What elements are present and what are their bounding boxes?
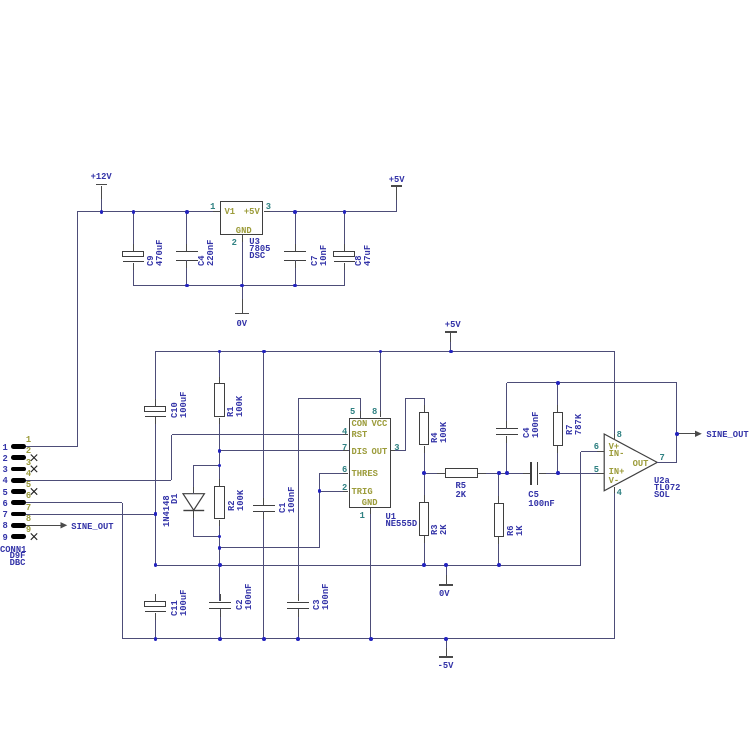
CONN1 pin 2 number (olive) xyxy=(26,448,31,454)
555 pin number 5 xyxy=(350,409,355,415)
regulator GND pin wire xyxy=(242,235,243,242)
X pin 5 xyxy=(31,488,37,494)
junction mid-rail/C2 branch xyxy=(218,563,222,567)
junction R2/TRIG link xyxy=(218,546,222,550)
power -5V bar xyxy=(439,656,453,658)
regulator pin number 1 xyxy=(155,204,215,210)
opamp label V- xyxy=(609,478,620,484)
label R5 2K xyxy=(456,482,467,501)
wire feedback right vertical xyxy=(676,383,677,463)
wire psu bottom rail xyxy=(134,285,345,286)
resistor R4 top wire xyxy=(424,398,425,412)
wire node to R5 xyxy=(424,473,445,474)
label CONN1 xyxy=(0,547,26,553)
resistor R3 xyxy=(419,502,430,536)
regulator label +5V xyxy=(244,209,260,215)
wire opamp V- to bottom rail xyxy=(614,487,615,640)
label C10 100uF xyxy=(171,392,188,418)
regulator V1 box xyxy=(220,201,264,235)
connector CONN1 pin 7 pad xyxy=(11,512,27,517)
capacitor C8 bottom wire xyxy=(344,263,345,286)
capacitor C9 bottom wire xyxy=(133,263,134,286)
555 pin number 3 xyxy=(394,445,399,451)
wire CONN pin7 horizontal xyxy=(26,514,155,515)
power -5V stem xyxy=(446,639,447,648)
label C4 100nF (main) xyxy=(523,412,540,438)
label C8 47uF xyxy=(355,245,372,266)
wire CONN pin6 horizontal xyxy=(26,502,122,503)
pin stub TRIG xyxy=(343,491,349,492)
wire mid rail 0V xyxy=(156,565,581,566)
opamp label IN- xyxy=(609,451,625,457)
555 pin number 8 xyxy=(372,409,377,415)
resistor R5 xyxy=(445,468,478,478)
label U2a TL072 SOL xyxy=(654,478,680,499)
connector CONN1 pin 2 pad xyxy=(11,455,27,460)
regulator label V1 xyxy=(225,209,236,215)
capacitor C4 220nF (psu) xyxy=(176,251,198,253)
junction R1/DIS wire xyxy=(218,449,222,453)
regulator label GND xyxy=(236,228,252,234)
label C11 100uF xyxy=(171,590,188,616)
label R4 100K xyxy=(431,421,448,442)
ground 0V (psu) bar xyxy=(235,313,249,315)
capacitor C10 bottom wire xyxy=(155,417,156,565)
CONN1 pin 4 number (olive) xyxy=(26,471,31,477)
label D1 1N4148 xyxy=(163,496,172,528)
junction pin7/C10 branch xyxy=(154,512,158,516)
wire OUT pin horizontal xyxy=(391,450,406,451)
pin stub RST xyxy=(343,434,349,435)
capacitor C4 (psu) top wire xyxy=(186,212,187,251)
junction R4/R3/R5 node xyxy=(422,471,426,475)
junction output/SINE_OUT tap xyxy=(675,432,679,436)
junction mid-rail/R6 xyxy=(497,563,501,567)
junction top-rail/+5V stem xyxy=(449,350,453,354)
resistor R1 bottom wire xyxy=(219,418,220,451)
junction +12V stem/rail xyxy=(100,210,104,214)
ground 0V (main) label xyxy=(439,591,450,597)
junction mid-rail/R3 xyxy=(422,563,426,567)
capacitor C10 (polarized) xyxy=(144,406,166,412)
capacitor C7 bottom wire xyxy=(295,260,296,285)
wire R5 to R6 node xyxy=(478,473,499,474)
junction psu-bottom/C7 xyxy=(293,284,297,288)
label R3 2K xyxy=(431,524,448,535)
junction R6 node xyxy=(497,471,501,475)
connector CONN1 pin 5 pad xyxy=(11,489,27,494)
junction top-rail/R1 xyxy=(218,350,222,354)
555 label VCC xyxy=(372,421,388,427)
resistor R4 bottom wire xyxy=(424,446,425,474)
wire CONN pin1 horizontal xyxy=(26,446,77,447)
CONN1 pin 4 number (left) xyxy=(0,478,8,484)
diode D1 cathode bar xyxy=(183,510,204,511)
resistor R2 xyxy=(214,486,225,519)
junction psu-bottom/GND-stem xyxy=(240,284,244,288)
wire TRIG horizontal xyxy=(320,491,343,492)
junction bottom-rail/-5V stem xyxy=(444,637,448,641)
capacitor C7 top wire xyxy=(295,212,296,251)
wire CONN pin6 vertical xyxy=(122,503,123,639)
wire +12V rail xyxy=(77,211,220,212)
wire D1 cathode vertical xyxy=(193,511,194,536)
opamp pin number 8 xyxy=(617,432,622,438)
opamp label V+ xyxy=(609,444,620,450)
555 label RST xyxy=(352,432,368,438)
resistor R7 bottom wire xyxy=(557,446,558,473)
IC U1 NE555D box xyxy=(349,418,391,508)
wire CONN pin4 vertical xyxy=(171,435,172,481)
ground 0V (main) bar xyxy=(439,584,453,586)
capacitor C1 bottom wire xyxy=(263,511,264,639)
power terminal +12V bar xyxy=(96,184,108,186)
X pin 2 xyxy=(31,455,37,461)
junction out-rail/C7 xyxy=(293,210,297,214)
555 label CON xyxy=(352,421,368,427)
wire VCC pin vertical xyxy=(380,351,381,417)
junction top-rail/VCC xyxy=(379,350,383,354)
resistor R7 top wire xyxy=(557,383,558,412)
SINE_OUT arrowhead xyxy=(695,431,702,437)
CONN1 pin 5 number (olive) xyxy=(26,482,31,488)
wire opamp IN- horizontal xyxy=(581,451,605,452)
junction bottom-rail/C2 xyxy=(218,637,222,641)
wire regulator output rail xyxy=(264,211,397,212)
resistor R1 xyxy=(214,383,225,417)
power terminal +5V (main) bar xyxy=(445,331,457,333)
CONN1 pin 5 number (left) xyxy=(0,490,8,496)
resistor R7 xyxy=(553,412,563,446)
junction top-rail/C1 xyxy=(262,350,266,354)
X pin 3 xyxy=(31,466,37,472)
555 label OUT xyxy=(372,449,388,455)
wire DIS net xyxy=(220,450,349,451)
wire opamp V+ from top rail xyxy=(614,351,615,440)
wire C5 to opamp IN+ xyxy=(539,473,605,474)
ground 0V (main) stem xyxy=(446,565,447,575)
wire TRIG link horizontal xyxy=(220,547,320,548)
CONN1 pin 8 number (left) xyxy=(0,523,8,529)
label U1 NE555D xyxy=(386,514,418,528)
label C4 220nF xyxy=(198,239,215,265)
capacitor C4 (psu) bottom wire xyxy=(186,260,187,285)
555 label GND xyxy=(362,500,378,506)
power terminal +5V (main) stem xyxy=(450,333,451,342)
power terminal +5V (psu) stem xyxy=(396,187,397,200)
label C9 470uF xyxy=(147,239,164,265)
capacitor C8 top wire xyxy=(344,212,345,252)
connector CONN1 pin 6 pad xyxy=(11,500,27,505)
label R7 787K xyxy=(566,413,583,434)
junction bottom-rail/C3 xyxy=(296,637,300,641)
CONN1 pin 3 number (left) xyxy=(0,467,8,473)
resistor R2 bottom wire xyxy=(219,520,220,548)
555 pin number 2 xyxy=(287,485,347,491)
CONN1 pin 9 number (olive) xyxy=(26,527,31,533)
wire feedback top xyxy=(507,382,677,383)
lead stubs (dark) xyxy=(219,377,220,384)
wire OUT vertical xyxy=(405,398,406,451)
power terminal +5V (psu) bar xyxy=(391,185,403,187)
555 pin number 7 xyxy=(287,445,347,451)
junction R7 bottom node xyxy=(556,471,560,475)
resistor R3 top wire xyxy=(424,473,425,502)
resistor R6 xyxy=(494,503,504,537)
connector CONN1 pin 3 pad xyxy=(11,467,27,472)
resistor R6 top wire xyxy=(498,473,499,502)
power -5V label xyxy=(438,663,454,669)
wire opamp output xyxy=(657,462,677,463)
wire CON horizontal xyxy=(298,398,360,399)
label C2 100nF xyxy=(236,584,253,610)
regulator pin number 2 xyxy=(177,240,237,246)
junction C10-wire/CONN pin7 xyxy=(154,512,158,516)
CONN1 pin 1 number (olive) xyxy=(26,437,31,443)
capacitor C8 (polarized) xyxy=(333,251,355,257)
capacitor C2 100nF xyxy=(209,602,231,604)
resistor R6 bottom wire xyxy=(498,537,499,565)
wire left drop to CONN1 pin1 xyxy=(77,211,78,446)
wire R6-C4 segment xyxy=(499,473,530,474)
junction rail/C9 xyxy=(132,210,136,214)
ground 0V (psu) label xyxy=(237,321,248,327)
wire R2-C2 link xyxy=(219,548,220,602)
pin8 arrowhead xyxy=(61,522,68,528)
junction mid-rail/C10-C11 xyxy=(154,563,158,567)
label C3 100nF xyxy=(313,584,330,610)
label R2 100K xyxy=(228,490,245,511)
capacitor C11 (polarized) xyxy=(144,601,166,607)
power terminal +5V (main) label xyxy=(445,322,461,328)
opamp pin number 5 xyxy=(539,467,599,473)
capacitor C11 bottom wire xyxy=(155,613,156,640)
CONN1 pin 6 number (left) xyxy=(0,501,8,507)
label C1 100nF xyxy=(279,487,296,513)
label C5 100nF xyxy=(528,491,554,510)
power terminal +5V (psu) label xyxy=(389,177,405,183)
CONN1 pin 8 number (olive) xyxy=(26,516,31,522)
capacitor C3 bottom wire xyxy=(298,609,299,639)
ground 0V (psu) stem xyxy=(242,286,243,300)
wire opamp IN- vertical xyxy=(580,452,581,566)
capacitor C3 100nF xyxy=(287,602,309,604)
power terminal +12V label xyxy=(91,174,112,180)
opamp label IN+ xyxy=(609,469,625,475)
capacitor C2 bottom wire xyxy=(220,609,221,639)
pin stub THRES xyxy=(343,473,349,474)
junction D1 bottom xyxy=(218,535,222,539)
wire bottom rail -5V xyxy=(122,638,614,639)
opamp pin number 4 xyxy=(617,490,622,496)
junction C4 bottom node xyxy=(505,471,509,475)
resistor R4 xyxy=(419,412,430,446)
junction psu-bottom/C4 xyxy=(185,284,189,288)
CONN1 pin 2 number (left) xyxy=(0,456,8,462)
capacitor C4 bottom wire (main) xyxy=(506,436,507,473)
wire D1 anode horizontal xyxy=(193,465,219,466)
capacitor C4 100nF (main) xyxy=(496,428,518,430)
pin stub DIS xyxy=(343,450,349,451)
connector CONN1 pin 8 pad xyxy=(11,523,27,528)
label D9F xyxy=(10,553,26,559)
label R6 1K xyxy=(507,525,524,536)
wire RST net xyxy=(172,434,343,435)
wire R1-D1 link xyxy=(219,451,220,466)
regulator pin number 3 xyxy=(266,204,271,210)
wire main +5V top rail xyxy=(156,351,615,352)
capacitor C1 top wire xyxy=(263,351,264,504)
CONN1 pin 6 number (olive) xyxy=(26,493,31,499)
wire THRES horizontal xyxy=(320,473,343,474)
label R1 100K xyxy=(227,395,244,416)
power terminal +12V stem xyxy=(101,186,102,200)
wire OUT to R4 horizontal xyxy=(406,398,425,399)
CONN1 pin 1 number (left) xyxy=(0,445,8,451)
resistor R1 top wire xyxy=(219,351,220,383)
CONN1 pin 9 number (left) xyxy=(0,535,8,541)
555 pin number 4 xyxy=(287,429,347,435)
resistor R2 top wire xyxy=(219,465,220,486)
X pin 9 xyxy=(31,533,37,539)
op-amp U2a body xyxy=(604,434,657,491)
junction mid-rail/0V stem xyxy=(444,563,448,567)
wire SINE_OUT pointer xyxy=(677,433,696,434)
connector CONN1 pin 9 pad xyxy=(11,534,27,539)
opamp pin number 7 xyxy=(660,455,665,461)
junction out-rail/C8 xyxy=(343,210,347,214)
net label SINE_OUT (right) xyxy=(706,432,748,438)
connector CONN1 pin 1 pad xyxy=(11,444,27,449)
555 label THRES xyxy=(352,471,378,477)
junction feedback/R7 xyxy=(556,381,560,385)
wire CON pin vertical xyxy=(360,398,361,418)
junction D1 top xyxy=(218,464,222,468)
capacitor C4 top wire (main) xyxy=(506,383,507,429)
label DBC xyxy=(10,560,26,566)
junction bottom-rail/555 GND xyxy=(369,637,373,641)
junction bottom-rail/C11 xyxy=(154,637,158,641)
capacitor C5 100nF (horizontal) xyxy=(530,462,532,484)
wire THRES-TRIG vertical xyxy=(319,473,320,548)
opamp pin number 6 xyxy=(539,444,599,450)
555 label DIS xyxy=(352,449,368,455)
CONN1 pin 3 number (olive) xyxy=(26,460,31,466)
capacitor C10 top wire xyxy=(155,351,156,406)
capacitor C9 top wire xyxy=(133,212,134,252)
555 pin number 6 xyxy=(287,467,347,473)
capacitor C7 10nF xyxy=(284,251,306,253)
junction bottom-rail/C1 xyxy=(262,637,266,641)
capacitor C9 (polarized) xyxy=(122,251,144,257)
resistor R3 bottom wire xyxy=(424,536,425,565)
diode D1 triangle xyxy=(183,494,204,511)
wire D1 cathode horizontal xyxy=(193,536,219,537)
CONN1 pin 7 number (left) xyxy=(0,512,8,518)
555 label TRIG xyxy=(352,489,373,495)
555 pin number 1 xyxy=(360,513,365,519)
regulator U3 7805 DSC label xyxy=(249,239,270,260)
net label SINE_OUT (pin8) xyxy=(71,524,113,530)
wire CONN pin4 horizontal xyxy=(26,480,171,481)
junction TRIG xyxy=(318,489,322,493)
label C7 10nF xyxy=(311,244,328,265)
wire D1 anode vertical xyxy=(193,465,194,493)
capacitor C1 100nF xyxy=(253,505,275,507)
CONN pin8 SINE_OUT pointer xyxy=(26,525,61,526)
CONN1 pin 7 number (olive) xyxy=(26,505,31,511)
wire 555 GND to bottom rail xyxy=(370,514,371,640)
connector CONN1 pin 4 pad xyxy=(11,478,27,483)
opamp label OUT xyxy=(633,461,649,467)
pin stub GND xyxy=(370,508,371,514)
wire C3 vertical xyxy=(298,398,299,601)
junction rail/C4 xyxy=(185,210,189,214)
